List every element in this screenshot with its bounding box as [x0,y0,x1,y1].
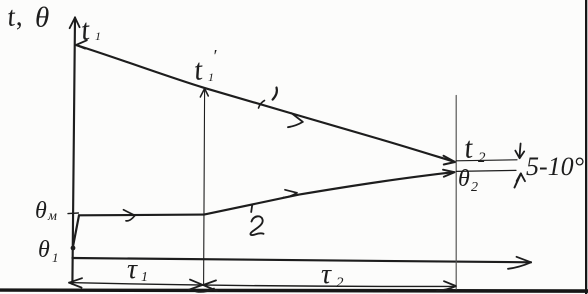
svg-text:′: ′ [213,46,218,66]
svg-text:2: 2 [336,275,344,291]
svg-text:1: 1 [95,29,101,43]
svg-text:θ: θ [458,166,470,192]
svg-text:τ: τ [127,254,138,285]
svg-text:м: м [47,209,57,224]
svg-text:5-10°: 5-10° [526,152,584,181]
svg-text:t,: t, [6,1,23,33]
svg-text:θ: θ [38,237,50,263]
svg-text:1: 1 [208,70,214,84]
svg-text:θ: θ [35,198,47,224]
svg-text:t: t [192,53,204,87]
svg-text:t: t [463,131,475,165]
svg-text:2: 2 [478,150,486,166]
svg-text:1: 1 [52,250,59,265]
svg-text:θ: θ [35,2,49,34]
svg-text:τ: τ [321,259,332,290]
svg-text:2: 2 [471,180,478,195]
svg-text:1: 1 [141,270,148,285]
